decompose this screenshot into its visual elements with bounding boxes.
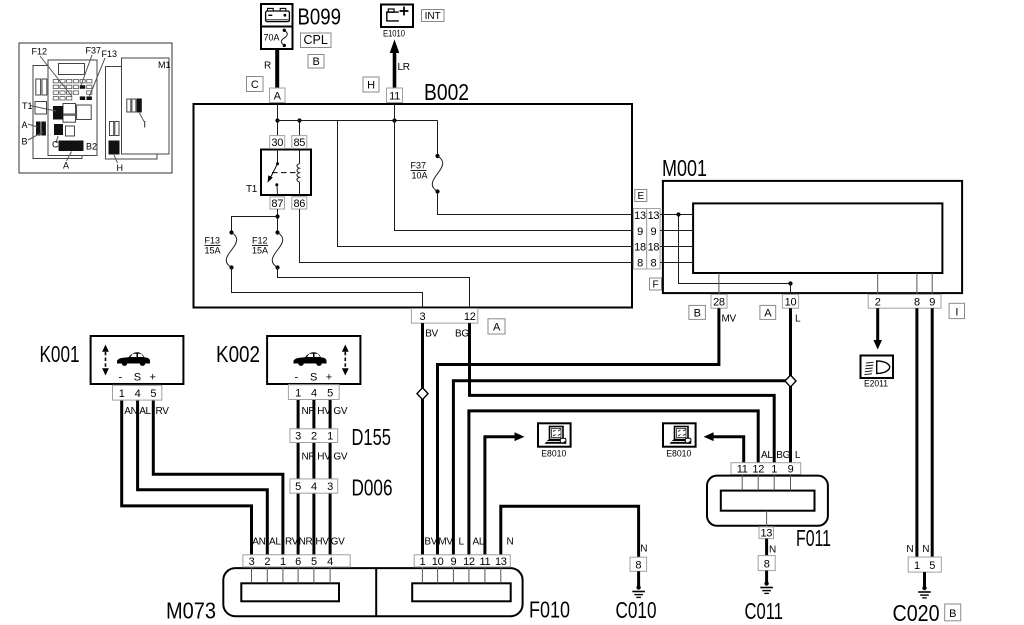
svg-text:5: 5 <box>295 481 301 493</box>
svg-text:12: 12 <box>752 464 764 476</box>
svg-text:B099: B099 <box>298 4 342 30</box>
svg-text:E8010: E8010 <box>541 449 566 460</box>
svg-text:AN: AN <box>124 406 137 417</box>
wire F37 to row13 <box>438 192 634 215</box>
svg-text:11: 11 <box>389 91 400 103</box>
svg-text:F011: F011 <box>796 525 831 551</box>
svg-text:1: 1 <box>295 387 301 399</box>
connector I black <box>137 99 142 113</box>
pin 13 of F011 <box>759 527 774 540</box>
node at 30/85 feed <box>275 118 279 122</box>
actuation dashed line <box>272 172 298 174</box>
wire L branch to F010 pin9 <box>453 381 790 555</box>
svg-text:+: + <box>150 372 156 384</box>
wire AL F010 pin12 to F011 pin12 <box>469 411 758 555</box>
inset frame <box>19 43 172 173</box>
svg-text:L: L <box>795 314 801 325</box>
svg-text:A: A <box>764 307 772 319</box>
svg-text:F: F <box>652 280 658 291</box>
connector D006 <box>290 479 338 493</box>
pin box 1/4/5 of K001 <box>113 385 162 400</box>
svg-text:BV: BV <box>425 329 438 340</box>
boxed label E <box>635 190 647 203</box>
boxed label A <box>488 319 505 334</box>
svg-text:B: B <box>312 56 319 68</box>
pin box 2/8/9 of M001 <box>868 294 941 308</box>
svg-text:E1010: E1010 <box>383 29 405 40</box>
svg-text:9: 9 <box>929 297 935 309</box>
wire M001 pin28 stub <box>718 273 720 295</box>
svg-text:+: + <box>326 372 332 384</box>
connector A black <box>36 122 41 136</box>
svg-text:2: 2 <box>875 297 881 309</box>
node pin11 feed <box>392 118 396 122</box>
relay sockets center <box>63 104 76 115</box>
svg-text:87: 87 <box>271 198 283 210</box>
svg-text:10: 10 <box>432 556 444 568</box>
svg-text:MV: MV <box>438 537 453 548</box>
boxed label CPL <box>301 33 332 48</box>
svg-text:K001: K001 <box>40 341 80 367</box>
pin box 1/5 of C020 <box>908 557 941 572</box>
node 13 branch <box>676 212 680 216</box>
boxed label INT <box>422 10 445 23</box>
svg-text:B2: B2 <box>86 142 97 152</box>
pin box 1/4/5 of K002 <box>288 385 339 400</box>
svg-text:5: 5 <box>929 560 935 572</box>
svg-text:8: 8 <box>637 258 643 270</box>
svg-text:RV: RV <box>156 406 170 417</box>
ground C011 <box>758 556 775 594</box>
svg-text:10A: 10A <box>412 171 428 181</box>
svg-text:A: A <box>22 120 28 130</box>
svg-text:B: B <box>949 608 956 620</box>
body computer M001 <box>663 181 962 293</box>
svg-text:8: 8 <box>764 559 770 571</box>
svg-text:E: E <box>637 191 644 202</box>
display window <box>59 64 85 75</box>
svg-text:85: 85 <box>293 137 305 149</box>
svg-text:N: N <box>922 544 929 555</box>
svg-text:E8010: E8010 <box>666 449 691 460</box>
pin box 11/12/1/9 of F011 <box>731 463 801 476</box>
leader A <box>28 124 38 127</box>
svg-text:A: A <box>274 91 282 103</box>
svg-text:AL: AL <box>761 450 773 461</box>
headlight E2011 <box>861 356 894 379</box>
svg-text:R: R <box>264 61 271 72</box>
pin 86 <box>292 197 307 210</box>
leader F37 <box>81 55 92 86</box>
leader H <box>114 155 118 163</box>
svg-text:GV: GV <box>333 406 347 417</box>
junction box B002 <box>194 104 633 308</box>
svg-text:F12: F12 <box>252 236 268 246</box>
wire F12 to pin 12 <box>278 268 470 308</box>
svg-text:1: 1 <box>327 431 333 443</box>
contact <box>276 162 279 165</box>
svg-text:2: 2 <box>311 431 317 443</box>
wire arrow pin 11 to E1010 <box>390 40 400 89</box>
interface pin columns B002/M001 <box>633 209 660 270</box>
wire node to pin10 <box>790 284 792 295</box>
car icon <box>294 352 327 363</box>
wire bus to row18 <box>300 121 634 247</box>
wire arrow F011 pin11 to E8010 <box>704 432 744 462</box>
wire pin11 to row9 <box>395 104 634 231</box>
svg-text:BG: BG <box>776 450 790 461</box>
contact feed stubs <box>277 150 279 164</box>
connector A/B2 black <box>59 141 84 152</box>
svg-text:C020: C020 <box>893 600 940 625</box>
svg-text:86: 86 <box>293 198 305 210</box>
sunroof control unit F011 <box>707 475 828 527</box>
wire R battery to B002 pin A <box>275 49 279 89</box>
pin 11 of B002 <box>387 88 403 103</box>
svg-text:13: 13 <box>495 556 507 568</box>
svg-text:L: L <box>459 537 465 548</box>
svg-text:H: H <box>117 163 124 173</box>
svg-text:I: I <box>144 120 147 130</box>
svg-text:F13: F13 <box>102 49 118 59</box>
svg-text:2: 2 <box>264 556 270 568</box>
svg-text:1: 1 <box>771 464 777 476</box>
wire 85 drop <box>299 121 301 150</box>
wire row9 into M001 <box>660 230 693 232</box>
wire L M001 pin10 to F011 pin9 <box>789 308 792 463</box>
socket next to C <box>66 126 75 136</box>
wire pin A down to node <box>277 104 279 150</box>
svg-text:11: 11 <box>479 556 490 568</box>
pin 28 of M001 <box>711 294 727 308</box>
relay socket left panel <box>35 102 47 115</box>
ground C010 <box>630 544 647 598</box>
leader I <box>140 113 145 122</box>
value label F12 15A <box>252 236 268 256</box>
coil <box>297 164 300 182</box>
svg-text:K002: K002 <box>216 341 260 367</box>
computer icon E8010 left <box>538 423 571 446</box>
svg-text:B: B <box>22 137 28 147</box>
svg-text:F010: F010 <box>529 597 570 623</box>
svg-text:12: 12 <box>463 556 475 568</box>
svg-text:6: 6 <box>295 556 301 568</box>
svg-text:HV: HV <box>317 452 331 463</box>
up/down arrow <box>342 345 349 352</box>
svg-text:A: A <box>63 161 69 171</box>
pin 10 of M001 <box>782 294 798 308</box>
svg-text:M001: M001 <box>662 155 707 181</box>
wire M001 pin9 stub <box>931 273 933 295</box>
svg-text:1: 1 <box>914 560 920 572</box>
wire N M001 pin8 to C020 pin1 <box>915 308 918 557</box>
node at pin10 <box>788 281 792 285</box>
svg-text:F12: F12 <box>32 47 48 57</box>
fuse F13 <box>226 230 237 269</box>
svg-text:AL: AL <box>139 406 151 417</box>
svg-text:BV: BV <box>424 537 437 548</box>
boxed label I <box>949 303 964 318</box>
svg-text:11: 11 <box>737 464 748 476</box>
boxed label F <box>650 278 662 291</box>
svg-text:M1: M1 <box>158 60 171 70</box>
wire MV M001 pin28 to F010 pin10 <box>438 308 719 555</box>
svg-text:C011: C011 <box>745 598 784 624</box>
wire N M001 pin9 to C020 pin5 <box>931 308 934 557</box>
connector H black <box>109 141 120 155</box>
wire labels above F011 <box>761 450 801 461</box>
svg-text:S: S <box>310 372 317 384</box>
svg-text:LR: LR <box>398 62 410 73</box>
svg-text:8: 8 <box>650 258 656 270</box>
central fuse board <box>48 60 97 156</box>
pin box 3/12 of B002 <box>411 309 477 324</box>
wire to fuse F37 <box>437 121 439 157</box>
wire BV B002 pin3 to F010 pin1 <box>421 323 424 555</box>
svg-text:AN: AN <box>252 537 265 548</box>
svg-text:1: 1 <box>119 388 125 400</box>
svg-text:E2011: E2011 <box>864 379 888 390</box>
svg-text:1: 1 <box>419 556 425 568</box>
leader F13 <box>90 58 106 96</box>
svg-text:9: 9 <box>450 556 456 568</box>
svg-text:RV: RV <box>285 537 299 548</box>
svg-text:F13: F13 <box>205 236 221 246</box>
svg-text:GV: GV <box>333 452 347 463</box>
connector C black <box>54 124 63 135</box>
wire NR K002 pin1 to M073 pin6 <box>297 399 300 555</box>
battery icon <box>268 8 274 11</box>
wire RV K001 pin5 to M073 pin1 <box>153 400 283 555</box>
svg-text:HV: HV <box>317 406 331 417</box>
pills right back panel <box>110 122 114 136</box>
sunroof switch K002 <box>267 336 360 384</box>
fuse grid <box>53 80 92 101</box>
wire 86 to row8 <box>300 209 634 263</box>
fuse F37 <box>432 154 443 194</box>
wire N F011 pin13 to C011 <box>765 539 768 556</box>
pin 85 <box>292 136 307 149</box>
svg-text:4: 4 <box>327 556 333 568</box>
coil stubs <box>299 150 301 164</box>
svg-text:T1: T1 <box>246 184 258 195</box>
boxed label C <box>247 77 264 92</box>
boxed label H <box>363 77 379 92</box>
pin A of B002 <box>270 88 286 103</box>
svg-text:BG: BG <box>455 329 469 340</box>
battery feed E1010 <box>381 5 413 28</box>
svg-text:3: 3 <box>419 311 425 323</box>
svg-text:4: 4 <box>311 387 317 399</box>
svg-text:F37: F37 <box>86 46 102 56</box>
wire row18 into M001 <box>660 246 693 248</box>
svg-text:8: 8 <box>635 560 641 572</box>
svg-text:NR: NR <box>302 452 316 463</box>
boxed label B <box>945 604 961 621</box>
svg-text:GV: GV <box>331 537 345 548</box>
body computer M1 panel <box>122 58 170 154</box>
node diamond on wire L <box>785 375 796 387</box>
boxed label B <box>308 55 324 69</box>
svg-text:18: 18 <box>634 242 646 254</box>
svg-text:5: 5 <box>311 556 317 568</box>
svg-text:10: 10 <box>785 297 797 309</box>
sunroof switch K001 <box>91 336 184 384</box>
svg-text:I: I <box>955 306 958 318</box>
svg-text:N: N <box>769 545 776 556</box>
svg-text:9: 9 <box>650 226 656 238</box>
svg-text:28: 28 <box>713 297 725 309</box>
fuse F13 black cell <box>87 96 92 100</box>
M001 inner module <box>693 203 942 273</box>
svg-text:C: C <box>52 140 59 150</box>
up/down arrow <box>102 345 109 352</box>
svg-text:9: 9 <box>788 464 794 476</box>
svg-text:D155: D155 <box>352 424 392 450</box>
pin 87 <box>270 197 285 210</box>
svg-text:M073: M073 <box>166 598 216 624</box>
wire arrow F010 pin11 to E8010 <box>485 432 525 555</box>
svg-text:T1: T1 <box>22 101 33 111</box>
svg-text:1: 1 <box>280 556 286 568</box>
svg-text:15A: 15A <box>205 246 221 256</box>
fuse F12 black cell <box>80 96 85 100</box>
wire row8 into M001 <box>660 262 693 264</box>
svg-text:5: 5 <box>327 387 333 399</box>
svg-text:S: S <box>134 372 141 384</box>
fuse-box location inset <box>19 43 172 173</box>
value label F13 15A <box>205 236 221 256</box>
wire row13 into M001 <box>660 214 693 216</box>
svg-text:3: 3 <box>327 481 333 493</box>
computer icon E8010 right <box>663 423 696 446</box>
relay T1 black <box>53 106 63 120</box>
pin box 3/2/1/6/5/4 of M073 <box>243 555 350 568</box>
wire BG B002 pin12 to F011 pin1 <box>470 323 775 463</box>
svg-text:N: N <box>906 544 913 555</box>
connector pills left panel <box>36 79 41 95</box>
boxed label A <box>760 305 776 319</box>
battery B099 <box>261 4 293 49</box>
leader C <box>56 136 58 143</box>
sunroof motor assembly M073+F010 <box>223 568 522 616</box>
svg-text:4: 4 <box>135 388 141 400</box>
svg-text:30: 30 <box>271 137 283 149</box>
node 87 split <box>275 214 279 218</box>
fuse F12 <box>272 230 283 269</box>
svg-text:B002: B002 <box>424 79 469 105</box>
svg-text:70A: 70A <box>264 33 280 43</box>
left bracket panel <box>33 66 82 159</box>
svg-text:H: H <box>367 80 375 92</box>
svg-text:3: 3 <box>249 556 255 568</box>
pin ticks M073 <box>252 567 501 583</box>
wire F13 to pin 3 <box>232 268 423 308</box>
svg-text:15A: 15A <box>252 246 268 256</box>
svg-text:NR: NR <box>299 537 313 548</box>
svg-text:NR: NR <box>302 406 316 417</box>
wire HV K002 pin4 to M073 pin5 <box>312 399 315 555</box>
wire to F13 <box>232 217 278 233</box>
leader B <box>28 132 43 140</box>
right back panel <box>106 67 158 160</box>
wire branch 13 to pin10 <box>679 215 791 284</box>
svg-text:18: 18 <box>648 242 660 254</box>
wire bus y121 <box>278 120 438 122</box>
boxed label B <box>689 305 706 319</box>
svg-text:CPL: CPL <box>304 33 328 47</box>
svg-text:B: B <box>694 307 701 319</box>
wire GV K002 pin5 to M073 pin4 <box>329 399 332 555</box>
wire AL K001 pin4 to M073 pin2 <box>138 400 268 555</box>
svg-text:N: N <box>640 544 647 555</box>
pin box 1/10/9/12/11/13 of F010 <box>414 555 510 568</box>
wire AN K001 pin1 to M073 pin3 <box>122 400 252 555</box>
wire labels above F010 <box>424 537 513 548</box>
relay T1 <box>261 150 311 196</box>
wire N F010 pin13 to ground C010 <box>501 506 639 557</box>
svg-text:13: 13 <box>634 210 646 222</box>
value label F37 10A <box>411 161 428 181</box>
svg-text:3: 3 <box>295 431 301 443</box>
leader T1 <box>30 106 56 112</box>
arrow M001 pin2 to E2011 <box>873 308 882 349</box>
svg-text:MV: MV <box>722 314 737 325</box>
svg-text:C010: C010 <box>616 597 657 623</box>
wire 87 down <box>277 209 279 233</box>
svg-text:AL: AL <box>473 537 485 548</box>
svg-text:13: 13 <box>760 528 772 540</box>
svg-text:HV: HV <box>315 537 329 548</box>
svg-text:D006: D006 <box>352 475 393 501</box>
svg-text:12: 12 <box>464 311 476 323</box>
svg-text:AL: AL <box>269 537 281 548</box>
svg-text:5: 5 <box>150 388 156 400</box>
svg-text:9: 9 <box>637 226 643 238</box>
svg-text:C: C <box>251 79 259 91</box>
connector B black <box>41 122 46 136</box>
connector D155 <box>290 429 338 443</box>
pills M1 <box>127 99 131 112</box>
svg-text:13: 13 <box>648 210 660 222</box>
wire M001 pin8 stub <box>916 273 918 295</box>
ground C020 <box>918 572 931 598</box>
svg-text:4: 4 <box>311 481 317 493</box>
svg-text:8: 8 <box>914 297 920 309</box>
leader A bottom <box>67 152 72 162</box>
car icon <box>117 352 150 363</box>
svg-text:INT: INT <box>425 11 441 22</box>
pin 30 <box>270 136 285 149</box>
fuse F37 black cell <box>80 85 85 89</box>
svg-text:F37: F37 <box>411 161 427 171</box>
svg-text:A: A <box>493 322 501 334</box>
leader F12 <box>40 56 72 97</box>
wire labels above M073 <box>252 537 345 548</box>
node diamond on wire BV <box>417 388 428 400</box>
svg-text:N: N <box>507 537 514 548</box>
wire M001 pin2 stub <box>877 273 879 295</box>
svg-text:L: L <box>795 450 801 461</box>
